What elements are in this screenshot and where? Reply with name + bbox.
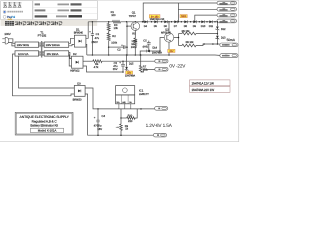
wire R2 to 0V rail — [108, 41, 110, 56]
wire D3- to A- rail — [85, 94, 153, 135]
row3 合計 ¥10,800円 (bold) — [35, 15, 48, 17]
wire R6 to terminal rail — [196, 44, 220, 46]
diode D6 — [164, 20, 167, 23]
terminal screen supply upper — [220, 43, 238, 47]
svg-text:1N4748A 22V 1W: 1N4748A 22V 1W — [192, 88, 215, 92]
caption banner 電源トランスアメリカからの輸入 — [1, 20, 98, 26]
svg-text:PT-292: PT-292 — [38, 34, 47, 38]
row1 小計 19.95ドル 3,200円 — [35, 3, 40, 5]
node C2 left — [108, 46, 110, 48]
svg-text:D15: D15 — [129, 63, 134, 66]
bridge rectifier D2 — [72, 56, 84, 68]
wire Q2 base — [160, 38, 164, 52]
payment panel left box — [1, 1, 33, 20]
terminal C -22V — [155, 68, 168, 72]
svg-text:1N4741A 11V 1W: 1N4741A 11V 1W — [192, 81, 214, 85]
svg-text:26V 20mA: 26V 20mA — [47, 53, 59, 56]
terminal A+ output — [155, 107, 168, 111]
wire chain end down to D12 — [216, 22, 218, 26]
svg-text:50mA: 50mA — [227, 38, 236, 42]
wire plug to primary — [8, 39, 15, 44]
svg-text:100V 100mA: 100V 100mA — [46, 44, 60, 47]
terminal B+180V — [217, 1, 237, 5]
yellow tag 22V (D15) — [126, 71, 133, 74]
diode D11 — [209, 20, 212, 23]
svg-text:R2: R2 — [112, 35, 116, 38]
svg-text:4.7k: 4.7k — [94, 66, 99, 69]
payment panel title 支払方法 — [3, 2, 7, 7]
radio button credit card (selected) — [3, 10, 6, 13]
svg-text:16V: 16V — [97, 127, 102, 131]
chain junction dots — [142, 21, 144, 23]
capacitor C1 47u 250V — [91, 22, 93, 34]
capacitor C3 47u 35V — [122, 60, 124, 62]
transformer core — [40, 41, 42, 58]
wire D13 to 44V rail — [216, 39, 218, 44]
regulator LM317 package tab — [116, 86, 135, 95]
legend box 1N4741A 11V 1W — [190, 80, 231, 86]
wire winding2 to D2 — [69, 52, 72, 58]
transformer secondary winding 100V 100mA — [44, 42, 68, 47]
wire Q1 emitter / R5 column — [134, 30, 136, 38]
svg-text:C1: C1 — [96, 33, 100, 36]
resistor R4 4.7k — [93, 60, 102, 63]
svg-text:100V: 100V — [4, 32, 10, 36]
model box — [31, 128, 64, 132]
diode D9 — [193, 20, 196, 23]
svg-text:D11: D11 — [209, 25, 214, 28]
0V common rail — [87, 54, 215, 56]
svg-text:1N4748A: 1N4748A — [125, 75, 135, 78]
resistor R2 100k — [107, 33, 110, 41]
terminal B+90V — [217, 13, 237, 17]
wire D1- to 0V rail — [85, 44, 88, 55]
wire D1+ to top rail — [86, 22, 88, 39]
terminal screen supply lower — [220, 54, 238, 58]
payment totals box — [33, 1, 98, 20]
wire R5 to D12/D13 junction — [196, 33, 217, 35]
bridge rectifier D1 — [74, 35, 86, 47]
wire Q2 right to R5/R6 — [174, 34, 179, 38]
wire chain to Q2 collector — [168, 22, 170, 33]
yellow tag B+ 180 — [149, 15, 160, 18]
node output rail — [140, 108, 142, 110]
capacitor C2 10u 160V horizontal — [109, 46, 124, 48]
svg-text:250V: 250V — [91, 41, 98, 44]
svg-text:100: 100 — [111, 14, 116, 17]
svg-text:1.2V-6V 1.5A: 1.2V-6V 1.5A — [146, 123, 173, 128]
svg-text:35V: 35V — [113, 68, 118, 71]
svg-text:D13: D13 — [221, 37, 226, 40]
wire ADJ column — [120, 109, 122, 118]
svg-text:C2: C2 — [117, 48, 121, 51]
wire chain end to B+45 terminal — [216, 20, 218, 23]
wire R9 to A- rail — [120, 130, 122, 135]
yellow tag 150 — [180, 15, 187, 18]
zener D15 — [126, 54, 128, 56]
wire Q1 base — [127, 25, 131, 27]
wire D2+ / R4 line — [83, 60, 93, 62]
svg-text:D12: D12 — [221, 28, 226, 31]
terminal A- output — [153, 133, 166, 137]
wire ADJ column to R9 — [120, 118, 122, 124]
svg-text:D10: D10 — [201, 25, 206, 28]
resistor R3 10k — [108, 22, 110, 24]
row2 UPS国際送料 47.45ドル 7,600円 — [35, 9, 46, 11]
zener D12 — [216, 27, 219, 30]
diode D4 — [144, 20, 147, 23]
potentiometer R9 1k — [120, 124, 123, 130]
schematic page border bottom — [0, 140, 239, 142]
wire R3 to R2 — [108, 31, 110, 33]
schematic page border top — [98, 0, 239, 1]
node Q1 collector — [135, 21, 137, 23]
svg-text:100V 60Hz: 100V 60Hz — [17, 44, 30, 47]
node C2 top rail — [126, 21, 128, 23]
node R3 top — [108, 21, 110, 23]
wire winding3 loop inner — [19, 56, 75, 88]
svg-text:1N4741A ×10: 1N4741A ×10 — [150, 18, 165, 21]
capacitor C4 4700u 16V — [97, 108, 99, 110]
wire tap to B+180 terminal — [143, 3, 217, 22]
wire C5/D14 left to R5 column — [140, 51, 143, 55]
wire D2- to -22V rail — [83, 66, 123, 72]
svg-text:Battery Eliminator Kit: Battery Eliminator Kit — [30, 123, 58, 127]
wire winding3 loop outer — [13, 54, 75, 96]
zener D13 — [216, 36, 219, 39]
svg-text:D14: D14 — [152, 46, 157, 49]
svg-text:Adj: Adj — [122, 101, 126, 104]
LM317 legs — [118, 104, 120, 109]
svg-text:BR8040: BR8040 — [74, 32, 84, 35]
diode D10 — [201, 20, 204, 23]
svg-text:5200: 5200 — [181, 15, 187, 18]
svg-text:R10: R10 — [128, 114, 133, 117]
svg-text:D2: D2 — [73, 53, 77, 56]
node C1 bottom — [92, 54, 94, 56]
svg-text:100k: 100k — [131, 40, 137, 43]
core winding bumps row1 — [39, 42, 41, 44]
svg-text:R5: R5 — [132, 33, 136, 36]
svg-text:ANTIQUE ELECTRONIC SUPPLY: ANTIQUE ELECTRONIC SUPPLY — [19, 115, 69, 119]
svg-text:C4: C4 — [102, 114, 106, 118]
-22V rail to terminal — [141, 69, 155, 72]
svg-text:BR8050: BR8050 — [73, 99, 82, 102]
svg-text:1N4748A: 1N4748A — [152, 52, 162, 55]
AC plug — [5, 37, 9, 44]
totals row separators — [33, 6, 97, 8]
transformer winding 10.5V 2A — [15, 51, 39, 56]
wire 0V rail to lower terminal — [215, 54, 220, 56]
title block outer border — [15, 112, 73, 135]
legend box 1N4748A 22V 1W — [190, 86, 231, 92]
svg-text:LM317T: LM317T — [139, 92, 149, 96]
terminal B+135V — [217, 7, 237, 11]
diode D7 — [174, 20, 177, 23]
svg-text:47u: 47u — [95, 37, 100, 40]
svg-text:220: 220 — [128, 120, 133, 123]
wire secondary1 to D1 — [69, 38, 75, 43]
wire tap to B+90 terminal — [195, 15, 217, 22]
yellow tag 22V (D14) — [168, 49, 175, 52]
svg-text:Model: K-101A: Model: K-101A — [38, 129, 57, 133]
svg-text:160V: 160V — [131, 46, 137, 49]
terminal C 0V — [155, 59, 168, 63]
wire D12 to D13 — [216, 30, 218, 36]
terminal inner text marks — [219, 3, 227, 5]
wire R4 to 0V output terminal — [102, 60, 155, 62]
svg-text:C5: C5 — [143, 39, 147, 42]
svg-text:10k: 10k — [114, 27, 119, 30]
diode D5 — [154, 20, 157, 23]
schematic page border right — [238, 0, 240, 142]
B+ top rail / zener chain line — [88, 21, 112, 23]
wire colC — [126, 22, 128, 55]
label クレジットカード — [7, 11, 8, 13]
regulator LM317 package body — [116, 95, 135, 104]
resistor R7 750k — [140, 54, 142, 56]
svg-text:22V: 22V — [169, 50, 174, 53]
junction dots on 44V rail — [203, 43, 205, 45]
wire R10 to output rail — [135, 109, 137, 118]
bridge rectifier D3 — [74, 86, 85, 97]
wire tap to B+135 terminal — [177, 3, 179, 22]
transformer T1 primary winding 100V 60Hz — [15, 42, 39, 47]
wire D3+ to A+ rail — [85, 88, 155, 109]
svg-text:HBP102: HBP102 — [70, 70, 80, 73]
transformer winding 26V 20mA — [44, 51, 68, 56]
diode D8 — [184, 20, 187, 23]
svg-text:(A-B): (A-B) — [143, 46, 148, 49]
svg-text:10.5V 2A: 10.5V 2A — [18, 53, 29, 56]
svg-text:0V -22V: 0V -22V — [169, 64, 186, 69]
svg-text:Pal: Pal — [11, 15, 15, 19]
node C1 top — [92, 21, 94, 23]
svg-text:TIP47: TIP47 — [129, 14, 137, 18]
wire Q2 emitter to 0V rail — [168, 42, 170, 55]
radio button paypal (unselected) — [3, 15, 6, 18]
svg-text:100k: 100k — [111, 42, 117, 45]
core winding bumps row2 — [39, 51, 41, 53]
terminal B+45V — [217, 19, 237, 23]
